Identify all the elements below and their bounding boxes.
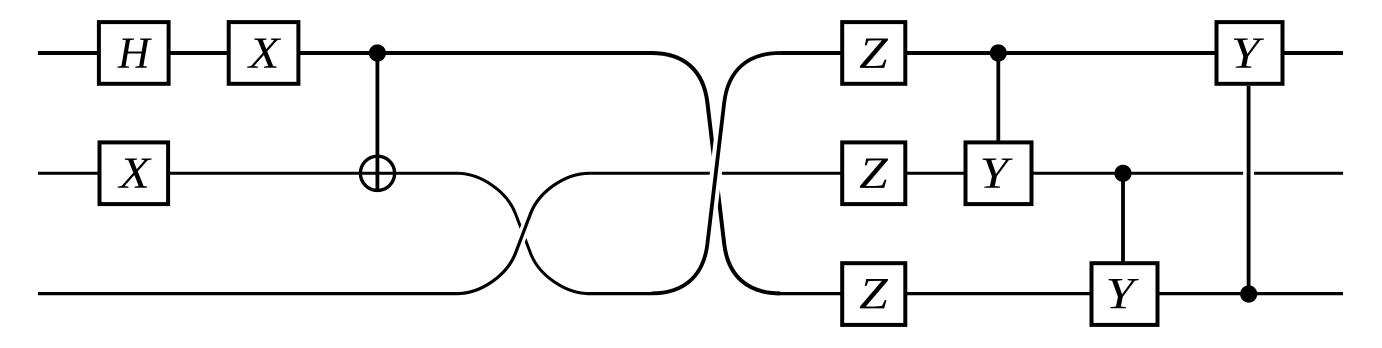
control dot q2 (target of Y on q0) [1240, 285, 1257, 302]
wire q1 segment Z to Y [904, 172, 966, 175]
wire q2 right end segment [1156, 292, 1343, 295]
CNOT target circle [360, 156, 394, 190]
gate Y q2 box [1092, 263, 1158, 325]
wire q2 segment between crossings [587, 292, 654, 295]
wire q0 segment X to crossing [298, 51, 654, 55]
CNOT control line [375, 53, 379, 190]
control dot q0 (controls Y on q1) [990, 44, 1007, 61]
wire q1 right end segment [1031, 172, 1343, 175]
wire q0 right end segment [1281, 51, 1343, 55]
svg-text:H: H [117, 28, 152, 77]
svg-text:X: X [247, 28, 283, 77]
gate X q1 box [100, 142, 169, 204]
gate H q0 box [99, 22, 169, 84]
control dot q1 (controls Y on q2) [1114, 165, 1131, 182]
swap1 ascending wire (q2 to q1) [457, 173, 589, 293]
gate Z q1 box [842, 142, 905, 204]
svg-text:Z: Z [859, 28, 888, 77]
wire q0 segment between H and X [168, 51, 229, 55]
swap2 descending wire (q0 to bottom) [652, 53, 781, 293]
wire q2 right segment crossing to Z [776, 292, 844, 295]
swap2 ascending wire casing [652, 53, 781, 293]
svg-text:X: X [117, 149, 153, 198]
swap1 descending wire (q1 to q2) [457, 173, 589, 293]
casing for control line crossing wire q1 [1243, 161, 1254, 186]
wire q0 right segment crossing to Z [776, 51, 844, 55]
wire q0 right segment Z to Y [904, 51, 1218, 55]
wire q2 segment left [38, 292, 458, 295]
swap1 ascending wire casing [457, 173, 589, 293]
wire q1 segment X to crossing [168, 172, 458, 175]
gate X q0 box [229, 22, 299, 84]
swap2 ascending wire (bottom to q0) [652, 53, 781, 293]
wire q1 segment left [38, 172, 100, 175]
gate Z q0 box [842, 22, 905, 84]
wire q2 segment Z to Y [904, 292, 1092, 295]
wire q1 middle segment to Z [587, 172, 844, 175]
control dot CNOT q0 [369, 44, 386, 61]
svg-text:Z: Z [859, 149, 888, 198]
control line Y to dot (q0 to q2) [1247, 86, 1251, 294]
gate Z q2 box [842, 263, 905, 325]
gate Y q0 box [1217, 22, 1283, 84]
control line dot to Y (q1 to q2) [1121, 173, 1125, 264]
wire q0 segment left [38, 51, 101, 55]
gate Y q1 box [966, 142, 1032, 204]
control line CZ dot to Y (q0 to q1) [996, 53, 1000, 143]
svg-text:Z: Z [859, 269, 888, 318]
